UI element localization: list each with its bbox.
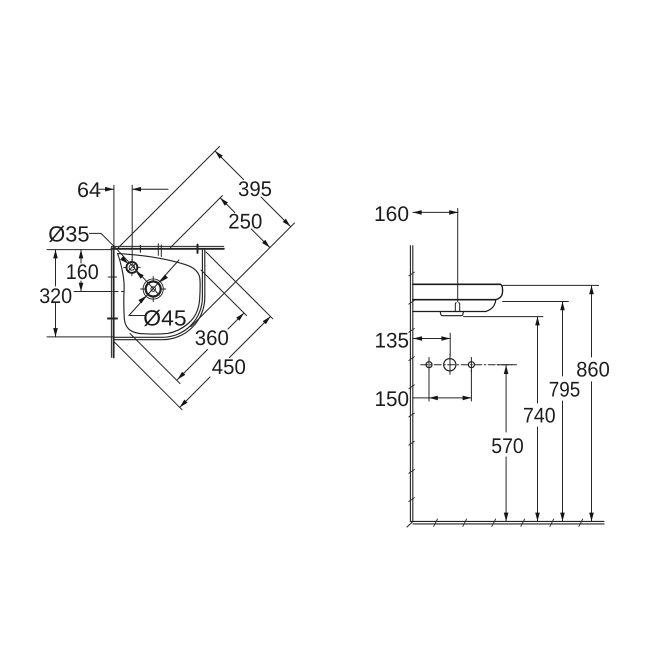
dimension 160 (left)	[47, 250, 124, 292]
extension line from corner (45deg)	[118, 147, 220, 249]
wall line (double)	[410, 246, 412, 522]
wall tick marks	[108, 245, 198, 319]
perpendicular centerline through drain + leader to Ø45	[129, 260, 179, 316]
dimension 860	[591, 285, 593, 521]
svg-text:740: 740	[523, 405, 556, 428]
svg-text:160: 160	[374, 203, 409, 226]
extension line for 250 upper	[171, 196, 223, 248]
wall line left (double)	[111, 247, 113, 357]
basin rim inner outline	[114, 250, 203, 338]
dimension 740	[537, 317, 539, 522]
basin profile: rim underside	[413, 299, 496, 301]
svg-text:64: 64	[77, 179, 101, 202]
fixing holes	[426, 359, 474, 371]
dimension 360	[178, 313, 245, 380]
extension line 795	[503, 301, 569, 303]
dimension 64	[99, 185, 168, 263]
svg-text:160: 160	[66, 261, 99, 284]
svg-text:395: 395	[238, 178, 272, 201]
dimension 795	[562, 302, 564, 522]
basin profile: bowl curve	[486, 300, 496, 312]
extension line 860	[503, 284, 599, 286]
svg-text:450: 450	[212, 356, 246, 379]
drain stub	[440, 312, 463, 316]
wall line top (double)	[112, 246, 224, 248]
drain hole (Ø45)	[141, 276, 166, 301]
dimension 320 (left)	[47, 250, 113, 337]
svg-text:570: 570	[491, 435, 524, 458]
centerline through holes (45 deg)	[116, 248, 159, 295]
dimension 570	[505, 365, 507, 521]
overflow slot marks	[158, 244, 161, 257]
arrows at faucet hole	[120, 256, 128, 264]
floor hatch ticks	[434, 519, 583, 526]
basin profile: bottom	[413, 311, 486, 313]
basin rim outer outline	[114, 250, 205, 340]
extension line 570	[497, 364, 517, 366]
svg-text:Ø35: Ø35	[48, 222, 89, 247]
dimension 450	[180, 317, 271, 408]
svg-text:Ø45: Ø45	[143, 306, 186, 331]
dimension 250	[220, 198, 270, 248]
svg-text:320: 320	[39, 285, 72, 308]
basin profile: front face	[496, 284, 503, 299]
extension line 740	[464, 316, 543, 318]
dash-dot centerline through holes	[421, 364, 512, 366]
dimension 395	[215, 151, 291, 227]
basin profile: rim top	[413, 283, 501, 285]
svg-text:860: 860	[576, 359, 610, 382]
extension line from rim front (45deg)	[191, 223, 295, 327]
center ticks of holes	[429, 354, 471, 375]
dimension 160 (right)	[413, 209, 458, 302]
svg-text:250: 250	[228, 211, 262, 234]
dimension 135	[413, 333, 450, 356]
svg-text:360: 360	[195, 327, 229, 350]
wall hatch ticks	[409, 272, 415, 501]
drain plug	[455, 303, 459, 312]
arrows at drain hole	[160, 275, 168, 283]
extension lines for 360	[201, 270, 247, 316]
faucet hole (Ø35)	[124, 259, 141, 276]
svg-text:150: 150	[375, 388, 410, 411]
extension lines for 450	[206, 252, 273, 319]
floor line (double)	[407, 521, 604, 527]
basin bowl (leaf shape)	[118, 254, 201, 335]
svg-text:135: 135	[375, 330, 410, 353]
svg-text:795: 795	[549, 378, 581, 401]
dimension 150	[413, 370, 472, 401]
